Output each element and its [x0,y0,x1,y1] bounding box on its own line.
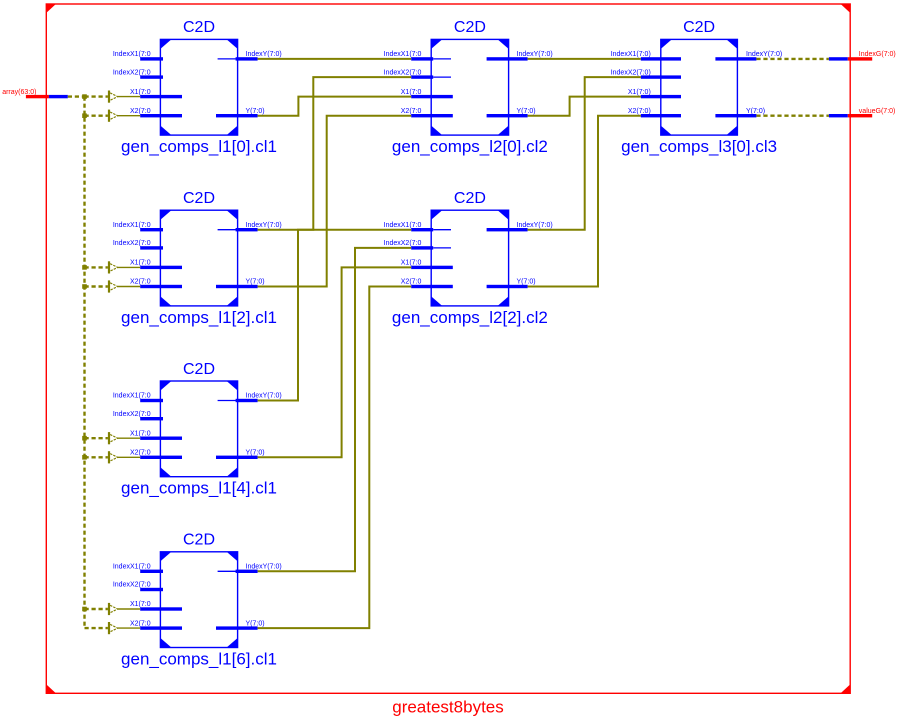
svg-text:IndexX2(7:0: IndexX2(7:0 [113,69,151,76]
wire net l1[2].Y to l2[0].X2 [258,116,412,287]
svg-text:X2(7:0: X2(7:0 [401,108,422,115]
svg-text:C2D: C2D [183,190,215,207]
wire net l1[0].indexY to l2[0].indexX1 [258,58,412,60]
wire buffer B2 output to pin [118,115,141,117]
svg-text:IndexX2(7:0: IndexX2(7:0 [384,69,422,76]
svg-text:X1(7:0): X1(7:0) [628,89,651,96]
svg-text:X1(7:0: X1(7:0 [130,430,151,437]
pin X1(7:0) of gen_comps_l1[2].cl1 [130,260,182,270]
svg-text:IndexX1(7:0): IndexX1(7:0) [611,51,651,58]
buffer B1 (array slice to X1 row1) [108,91,118,103]
svg-text:Y(7:0): Y(7:0) [246,620,265,627]
wire buffer B5 output to pin [118,437,141,439]
svg-text:C2D: C2D [183,532,215,549]
svg-text:IndexY(7:0): IndexY(7:0) [746,51,782,58]
svg-text:Y(7:0): Y(7:0) [517,279,536,286]
svg-text:X1(7:0: X1(7:0 [130,601,151,608]
pin indexX1(7:0) of gen_comps_l2[2].cl2 [384,222,451,232]
svg-text:IndexX2(7:0: IndexX2(7:0 [384,240,422,247]
pin indexY(7:0) of gen_comps_l3[0].cl3 [715,51,782,61]
svg-text:IndexX1(7:0: IndexX1(7:0 [384,222,422,229]
pin X1(7:0) of gen_comps_l1[0].cl1 [130,89,182,99]
pin indexX2(7:0) of gen_comps_l2[2].cl2 [384,240,451,249]
buffer B7 (array slice to X1 row4) [108,603,118,615]
pin X1(7:0) of gen_comps_l1[4].cl1 [130,430,182,440]
wire array distribution trunk (dashed vertical) [83,97,85,629]
pin indexX2(7:0) of gen_comps_l1[2].cl1 [113,240,163,249]
pin X2(7:0) of gen_comps_l2[0].cl2 [401,108,453,118]
svg-text:Y(7:0): Y(7:0) [746,108,765,115]
svg-text:X1(7:0: X1(7:0 [130,89,151,96]
pin indexX1(7:0) of gen_comps_l2[0].cl2 [384,51,451,61]
pin indexY(7:0) of gen_comps_l1[4].cl1 [218,393,282,402]
svg-text:IndexX2(7:0: IndexX2(7:0 [113,582,151,589]
pin X1(7:0) of gen_comps_l3[0].cl3 [628,89,681,99]
wire net l1[2].indexY to l2[0].indexX2 [258,77,412,230]
svg-text:Y(7:0): Y(7:0) [246,279,265,286]
svg-text:C2D: C2D [454,19,486,36]
pin indexX1(7:0) of gen_comps_l1[6].cl1 [113,564,163,574]
wire buffer B4 output to pin [118,286,141,288]
svg-text:IndexY(7:0): IndexY(7:0) [246,222,282,229]
svg-text:C2D: C2D [454,190,486,207]
port array(63:0) (input) [2,89,68,98]
wire net l2[0].Y to l3[0].X1 [528,97,641,116]
pin X2(7:0) of gen_comps_l3[0].cl3 [628,108,681,118]
svg-text:X2(7:0: X2(7:0 [130,108,151,115]
wire net l2[2].Y to l3[0].X2 [528,116,641,287]
wire trunk tap to buffer row3 X1 (dashed) [85,437,108,439]
svg-text:gen_comps_l1[6].cl1: gen_comps_l1[6].cl1 [121,650,277,669]
comparator U7: instance gen_comps_l1[6].cl1, type C2D [121,532,277,669]
buffer B4 (array slice to X2 row2) [108,280,118,292]
buffer B8 (array slice to X2 row4) [108,622,118,634]
wire trunk tap to buffer row3 X2 (dashed) [85,456,108,458]
svg-text:IndexY(7:0): IndexY(7:0) [246,564,282,571]
port valueG(7:0) (output) [829,108,895,118]
svg-text:Y(7:0): Y(7:0) [246,108,265,115]
svg-text:IndexX1(7:0: IndexX1(7:0 [384,51,422,58]
svg-text:gen_comps_l1[2].cl1: gen_comps_l1[2].cl1 [121,308,277,327]
pin indexX2(7:0) of gen_comps_l1[4].cl1 [113,411,163,421]
pin X1(7:0) of gen_comps_l1[6].cl1 [130,601,182,611]
wire buffer B7 output to pin [118,608,141,610]
svg-text:C2D: C2D [183,361,215,378]
pin indexX2(7:0) of gen_comps_l2[0].cl2 [384,69,451,79]
pin indexX1(7:0) of gen_comps_l1[2].cl1 [113,222,163,232]
buffer B2 (array slice to X2 row1) [108,110,118,122]
junction on trunk at row1 X2 [82,113,87,118]
junction on trunk at row3 X2 [82,455,87,460]
wire net l1[6].Y to l2[2].X2 [258,287,412,629]
svg-text:IndexX2(7:0): IndexX2(7:0) [611,69,651,76]
svg-text:gen_comps_l1[0].cl1: gen_comps_l1[0].cl1 [121,137,277,156]
pin indexY(7:0) of gen_comps_l1[6].cl1 [218,564,282,574]
svg-text:IndexY(7:0): IndexY(7:0) [517,51,553,58]
svg-text:X2(7:0: X2(7:0 [130,620,151,627]
svg-text:IndexX2(7:0: IndexX2(7:0 [113,411,151,418]
svg-text:X1(7:0: X1(7:0 [401,260,422,267]
pin Y(7:0) of gen_comps_l1[0].cl1 [216,108,265,118]
wire net l1[0].Y to l2[0].X1 [258,97,412,116]
wire buffer B8 output to pin [118,627,141,629]
pin Y(7:0) of gen_comps_l1[6].cl1 [216,620,265,630]
svg-text:Y(7:0): Y(7:0) [246,450,265,457]
svg-text:gen_comps_l1[4].cl1: gen_comps_l1[4].cl1 [121,479,277,498]
pin indexX1(7:0) of gen_comps_l1[0].cl1 [113,51,163,61]
comparator U5: instance gen_comps_l2[2].cl2, type C2D [392,190,548,327]
svg-text:greatest8bytes: greatest8bytes [392,698,504,717]
wire trunk tap to buffer row1 X1 (dashed) [85,95,108,97]
svg-text:IndexX1(7:0: IndexX1(7:0 [113,564,151,571]
pin indexX1(7:0) of gen_comps_l1[4].cl1 [113,393,163,402]
wire trunk corner to row4 X2 buffer (dashed) [85,627,108,629]
junction on trunk at row2 X2 [82,284,87,289]
pin indexY(7:0) of gen_comps_l2[0].cl2 [487,51,553,61]
pin indexY(7:0) of gen_comps_l1[2].cl1 [218,222,282,232]
svg-text:IndexY(7:0): IndexY(7:0) [517,222,553,229]
wire trunk tap to buffer row4 X1 (dashed) [85,608,108,610]
svg-text:IndexX2(7:0: IndexX2(7:0 [113,240,151,247]
svg-text:valueG(7:0): valueG(7:0) [859,108,896,115]
svg-text:IndexG(7:0): IndexG(7:0) [859,51,896,58]
pin indexX2(7:0) of gen_comps_l1[6].cl1 [113,582,163,592]
comparator U1: instance gen_comps_l1[0].cl1, type C2D [121,19,277,156]
pin X2(7:0) of gen_comps_l1[0].cl1 [130,108,182,118]
pin Y(7:0) of gen_comps_l1[2].cl1 [216,279,265,288]
svg-text:X2(7:0: X2(7:0 [130,450,151,457]
comparator U3: instance gen_comps_l3[0].cl3, type C2D [621,19,777,156]
pin Y(7:0) of gen_comps_l3[0].cl3 [715,108,765,118]
svg-text:C2D: C2D [183,19,215,36]
pin X2(7:0) of gen_comps_l1[2].cl1 [130,279,182,288]
svg-text:IndexY(7:0): IndexY(7:0) [246,51,282,58]
svg-text:IndexX1(7:0: IndexX1(7:0 [113,222,151,229]
svg-text:C2D: C2D [683,19,715,36]
wire net l1[4].indexY to l2[2].indexX1 [258,230,412,401]
pin indexX2(7:0) of gen_comps_l1[0].cl1 [113,69,163,79]
svg-text:array(63:0): array(63:0) [2,89,36,96]
svg-text:gen_comps_l3[0].cl3: gen_comps_l3[0].cl3 [621,137,777,156]
svg-text:IndexX1(7:0: IndexX1(7:0 [113,51,151,58]
wire buffer B1 output to pin [118,96,141,98]
comparator U4: instance gen_comps_l1[2].cl1, type C2D [121,190,277,327]
wire trunk tap to buffer row2 X2 (dashed) [85,285,108,287]
wire trunk tap to buffer row1 X2 (dashed) [85,114,108,116]
wire net l2[2].indexY to l3[0].indexX2 [528,77,641,230]
junction on trunk at row1 X1 [82,94,87,99]
pin Y(7:0) of gen_comps_l1[4].cl1 [216,450,265,460]
pin indexX1(7:0) of gen_comps_l3[0].cl3 [611,51,681,61]
svg-text:gen_comps_l2[2].cl2: gen_comps_l2[2].cl2 [392,308,548,327]
buffer B3 (array slice to X1 row2) [108,261,118,273]
wire net l1[4].Y to l2[2].X1 [258,267,412,457]
pin X1(7:0) of gen_comps_l2[2].cl2 [401,260,453,270]
junction on trunk at row2 X1 [82,265,87,270]
svg-text:IndexY(7:0): IndexY(7:0) [246,393,282,400]
port indexG(7:0) (output) [829,51,896,61]
pin X2(7:0) of gen_comps_l1[4].cl1 [130,450,182,460]
svg-text:X1(7:0: X1(7:0 [401,89,422,96]
svg-text:X2(7:0: X2(7:0 [130,279,151,286]
wire array port to trunk (dashed) [68,95,85,97]
pin indexX2(7:0) of gen_comps_l3[0].cl3 [611,69,681,79]
junction on trunk at row3 X1 [82,436,87,441]
junction on trunk at row4 X1 [82,607,87,612]
svg-text:X1(7:0: X1(7:0 [130,260,151,267]
svg-text:X2(7:0): X2(7:0) [628,108,651,115]
pin X1(7:0) of gen_comps_l2[0].cl2 [401,89,453,99]
buffer B5 (array slice to X1 row3) [108,432,118,444]
wire net l3[0].indexY to port indexG (dashed) [756,58,829,60]
title greatest8bytes [392,698,504,717]
comparator U6: instance gen_comps_l1[4].cl1, type C2D [121,361,277,498]
svg-text:Y(7:0): Y(7:0) [517,108,536,115]
pin indexY(7:0) of gen_comps_l2[2].cl2 [487,222,553,232]
wire net l3[0].Y to port valueG (dashed) [756,114,829,116]
comparator U2: instance gen_comps_l2[0].cl2, type C2D [392,19,548,156]
wire buffer B3 output to pin [118,266,141,268]
wire buffer B6 output to pin [118,456,141,458]
pin X2(7:0) of gen_comps_l2[2].cl2 [401,279,453,288]
wire net l2[0].indexY to l3[0].indexX1 [528,58,641,60]
svg-text:gen_comps_l2[0].cl2: gen_comps_l2[0].cl2 [392,137,548,156]
svg-text:X2(7:0: X2(7:0 [401,279,422,286]
pin Y(7:0) of gen_comps_l2[2].cl2 [487,279,536,288]
pin X2(7:0) of gen_comps_l1[6].cl1 [130,620,182,630]
wire net l1[6].indexY to l2[2].indexX2 [258,248,412,571]
buffer B6 (array slice to X2 row3) [108,451,118,463]
pin Y(7:0) of gen_comps_l2[0].cl2 [487,108,536,118]
svg-text:IndexX1(7:0: IndexX1(7:0 [113,393,151,400]
pin indexY(7:0) of gen_comps_l1[0].cl1 [218,51,282,61]
wire trunk tap to buffer row2 X1 (dashed) [85,266,108,268]
